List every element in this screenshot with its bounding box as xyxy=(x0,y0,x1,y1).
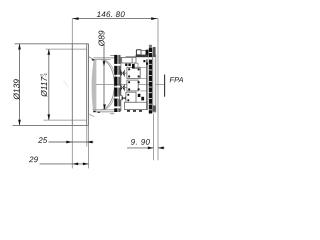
small blacks under R1 xyxy=(125,64,134,69)
extension line 29 right xyxy=(88,125,90,168)
dia117 dimension line xyxy=(48,49,50,120)
dia139 bottom arrowhead xyxy=(18,120,21,126)
dia89 leader line xyxy=(103,47,105,110)
svg-text:29: 29 xyxy=(28,155,38,164)
svg-text:FPA: FPA xyxy=(169,75,183,84)
housing stack rect R3 xyxy=(127,80,138,91)
housing left wall xyxy=(120,57,122,111)
dimension 29 right arrowhead xyxy=(83,163,89,166)
extension line 25 right xyxy=(86,125,88,146)
housing right wall second line xyxy=(147,59,149,110)
top cluster dark underline xyxy=(136,55,149,57)
dashes under housing base xyxy=(127,110,142,112)
dimension 9.90 right segment xyxy=(158,147,165,149)
barrel top edge xyxy=(15,43,89,45)
centerline xyxy=(96,84,164,86)
dia117 extension line bottom xyxy=(44,119,87,121)
bolt flange bar A xyxy=(114,55,117,112)
black bits right of R4 xyxy=(127,94,144,101)
extension line flange face upper xyxy=(71,19,73,44)
dia89 lower arrowhead xyxy=(103,104,106,109)
cylinder89 bottom edge b xyxy=(93,109,115,111)
svg-text:9. 90: 9. 90 xyxy=(131,138,151,147)
dimension 29 left arrowhead xyxy=(73,163,79,166)
bottom outward diagonal xyxy=(89,114,94,116)
housing right wall xyxy=(146,59,148,110)
cone base rim arc outer xyxy=(100,60,114,110)
extension line 9.90 left xyxy=(153,114,155,161)
svg-text:Ø117: Ø117 xyxy=(39,77,49,98)
cone surface shading light tail xyxy=(95,60,97,111)
small valve box left of R4 xyxy=(120,95,122,100)
barrel right edge (dia139) xyxy=(86,44,88,126)
dia139 top arrowhead xyxy=(18,44,21,50)
fin bar white stripes xyxy=(149,52,152,110)
svg-text:146. 80: 146. 80 xyxy=(97,10,126,19)
top cluster black blob D3 xyxy=(146,50,149,56)
barrel left face / dia139 dimension line xyxy=(19,44,21,126)
dimension 25 right arrowhead xyxy=(87,141,93,144)
housing stack rect R1 xyxy=(122,58,136,63)
dimension 29 line xyxy=(40,163,89,165)
bowtie shaft lower xyxy=(121,87,127,89)
svg-text:-1: -1 xyxy=(43,73,48,77)
FPA tick bar xyxy=(164,75,166,97)
small blacks below cluster xyxy=(143,60,148,65)
fin bar (cooler ribs) xyxy=(149,45,152,49)
cylinder89 top edge b xyxy=(94,59,111,61)
top cluster box D1 xyxy=(136,50,141,55)
dimension 9.90 right arrowhead xyxy=(158,147,164,150)
top cluster line to housing xyxy=(126,56,136,58)
screw dots R2 xyxy=(128,68,139,77)
cone bottom flat short xyxy=(110,113,114,115)
dimension 25 left arrowhead xyxy=(66,141,72,144)
black dash bottom rim 1 xyxy=(93,111,95,112)
housing stack rect R5 xyxy=(125,102,148,109)
bowtie shaft upper xyxy=(121,72,127,74)
bowtie pin lower xyxy=(120,84,124,92)
svg-text:25: 25 xyxy=(37,136,47,145)
end cap dark bottom xyxy=(153,106,156,112)
svg-text:Ø139: Ø139 xyxy=(11,79,21,101)
black dash top rim xyxy=(92,59,94,60)
dia117 disc silhouette edge xyxy=(88,44,90,126)
dimension 25 line xyxy=(49,141,94,143)
cone base rim arc inner xyxy=(102,60,116,110)
cone surface shading band xyxy=(92,59,97,112)
extension line flange face lower xyxy=(71,125,73,168)
end cap xyxy=(153,55,156,112)
housing stack rect R4 xyxy=(126,92,136,102)
dia117 top arrowhead xyxy=(47,49,50,55)
dia89 upper arrowhead xyxy=(103,61,106,66)
cone top chamfer xyxy=(89,57,94,60)
housing stack rect R2 xyxy=(127,67,140,78)
dimension 146.80 right arrowhead xyxy=(151,17,157,20)
white box right of R1 xyxy=(135,63,138,68)
dia117 extension line top xyxy=(46,48,87,50)
dimension 9.90 line left segment xyxy=(127,147,154,149)
dimension 9.90 left arrowhead xyxy=(148,147,154,150)
cylinder89 top edge a xyxy=(94,57,115,59)
black dash bottom rim 2 xyxy=(98,112,100,113)
bowtie pin upper xyxy=(120,69,124,77)
dimension 146.80 left arrowhead xyxy=(73,17,79,20)
faint interior smudge xyxy=(64,81,69,88)
top cluster box D2 xyxy=(141,50,146,55)
dimension 146.80 line xyxy=(72,18,158,20)
svg-text:Ø89: Ø89 xyxy=(97,30,107,47)
end cap dark top xyxy=(153,47,156,57)
extension line FPA plane xyxy=(157,19,159,161)
bolt flange bar B xyxy=(118,55,120,112)
screw dots R3 xyxy=(128,81,139,90)
bowtie pin third xyxy=(122,96,126,100)
flange face edge inside barrel xyxy=(71,44,73,126)
dia117 bottom arrowhead xyxy=(47,114,50,120)
barrel bottom edge xyxy=(13,124,89,126)
cone top flat short xyxy=(110,54,114,56)
stack stub lines to right wall xyxy=(138,67,147,102)
cylinder89 bottom edge a xyxy=(93,111,114,113)
